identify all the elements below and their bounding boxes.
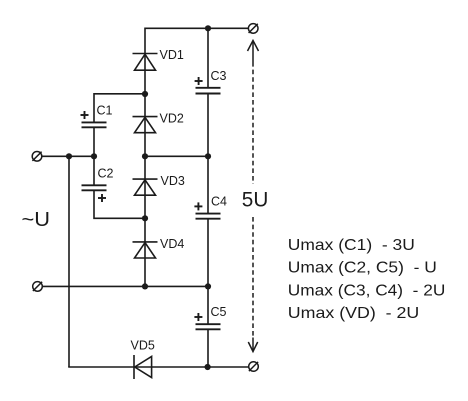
- wire C1 top horizontal to VD1/VD2 node: [94, 94, 145, 122]
- diode VD5: [134, 355, 152, 379]
- svg-text:C5: C5: [211, 305, 227, 319]
- terminal output bottom right: [249, 362, 259, 372]
- capacitor C3: [195, 77, 221, 94]
- capacitor C4: [194, 202, 220, 218]
- svg-text:Umax (VD) - 2U: Umax (VD) - 2U: [288, 305, 420, 322]
- svg-text:Umax (C1) - 3U: Umax (C1) - 3U: [288, 237, 415, 254]
- wire bottom horizontal: [68, 366, 249, 368]
- junction node VD1-VD2 / C1: [142, 91, 148, 97]
- wire diode column vertical x=145: [144, 28, 146, 287]
- diode VD3: [133, 179, 158, 195]
- junction node C4-C5: [205, 283, 211, 289]
- wire input lower horizontal: [42, 285, 208, 287]
- junction node C3-C4: [205, 153, 211, 159]
- svg-text:~U: ~U: [22, 209, 51, 231]
- wire C2 top vertical: [93, 156, 95, 184]
- svg-text:VD2: VD2: [160, 111, 184, 125]
- wire right column x=208 segment C4 to C5: [207, 219, 209, 324]
- wire right column x=208 segment above C3: [207, 28, 209, 88]
- wire input upper horizontal: [42, 155, 95, 157]
- capacitor C5: [194, 313, 220, 329]
- terminal input lower left: [33, 282, 43, 292]
- svg-text:VD3: VD3: [161, 174, 185, 188]
- svg-text:VD5: VD5: [131, 339, 155, 353]
- junction node C1-C2: [91, 153, 97, 159]
- junction node top right: [205, 25, 211, 31]
- svg-text:VD1: VD1: [160, 48, 184, 62]
- svg-text:C1: C1: [97, 104, 113, 118]
- junction node C5 bottom: [205, 364, 211, 370]
- junction node VD4 bottom: [142, 283, 148, 289]
- diode VD2: [133, 117, 158, 133]
- dashed measure arrow bottom (5U): [248, 217, 257, 352]
- diode VD4: [133, 242, 158, 258]
- junction node VD2-VD3: [142, 153, 148, 159]
- wire right column x=208 segment C3 to C4: [207, 94, 209, 214]
- wire C2 bottom elbow to VD3/VD4 node: [94, 191, 145, 218]
- diode VD1: [133, 54, 158, 71]
- wire top horizontal from diode column to output terminal: [145, 27, 248, 29]
- svg-text:Umax (C2, C5) - U: Umax (C2, C5) - U: [288, 260, 437, 277]
- junction node VD3-VD4 / C2: [142, 215, 148, 221]
- terminal output top right: [248, 24, 258, 34]
- terminal input upper left: [32, 152, 42, 162]
- svg-text:5U: 5U: [242, 188, 268, 212]
- wire mid horizontal VD2/VD3 node to C3/C4 node: [145, 155, 208, 157]
- svg-text:VD4: VD4: [160, 237, 184, 251]
- wire left vertical x=69: [68, 156, 70, 368]
- svg-text:C4: C4: [211, 194, 227, 208]
- junction node left wire upper: [66, 153, 72, 159]
- svg-text:C2: C2: [98, 167, 114, 181]
- capacitor C2: [82, 185, 107, 202]
- wire C1 bottom vertical: [93, 128, 95, 156]
- capacitor C1: [81, 111, 107, 127]
- svg-text:C3: C3: [211, 69, 227, 83]
- wire right column x=208 segment below C5: [207, 329, 209, 367]
- svg-text:Umax (C3, C4) - 2U: Umax (C3, C4) - 2U: [288, 283, 446, 300]
- dashed measure arrow top (5U): [248, 41, 259, 185]
